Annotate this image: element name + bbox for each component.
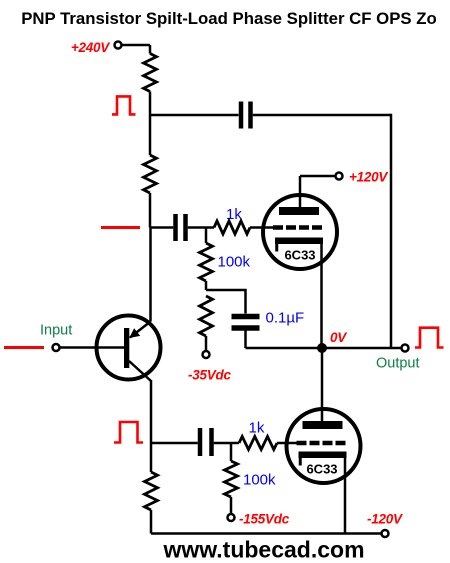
- svg-text:www.tubecad.com: www.tubecad.com: [162, 537, 364, 563]
- wire C4 to junction and R7: [214, 442, 239, 445]
- wire C1 to right rail: [253, 114, 391, 117]
- tube U1 grid dashes: [273, 225, 322, 230]
- terminal +120V: [336, 173, 343, 180]
- resistor R7 1k: [239, 437, 277, 450]
- svg-text:100k: 100k: [218, 254, 251, 271]
- wire lower-left rail to R6: [150, 443, 153, 472]
- tube U1 plate bar: [279, 207, 319, 215]
- svg-text:PNP Transistor Spilt-Load Phas: PNP Transistor Spilt-Load Phase Splitter…: [21, 9, 437, 28]
- wire R5 to -35Vdc terminal: [205, 336, 208, 351]
- terminal Input: [53, 344, 60, 351]
- svg-text:+240V: +240V: [71, 40, 110, 55]
- tube U2 cathode bar: [299, 452, 347, 459]
- wire coupling node to C2: [150, 226, 173, 229]
- transistor Q1 emitter arrow: [129, 328, 140, 338]
- wire rail R1 to node: [149, 92, 152, 156]
- transistor Q1 circle: [97, 316, 161, 380]
- wire 100k lower drop: [230, 443, 233, 461]
- node 0V junction dot: [317, 343, 327, 353]
- svg-text:0V: 0V: [330, 330, 347, 345]
- tube U2 plate bar: [303, 421, 343, 429]
- resistor R4 100k: [200, 243, 213, 281]
- pulse symbol lower-left: [114, 422, 143, 443]
- wire R7 to tube U2 grid: [277, 442, 298, 445]
- wire C2 to R3: [188, 226, 214, 229]
- tube U1 cathode bar: [275, 238, 323, 245]
- svg-text:6C33: 6C33: [284, 248, 315, 263]
- tube U2 cathode left leg: [299, 457, 302, 466]
- svg-text:Output: Output: [376, 356, 420, 372]
- tube U2 envelope: [287, 409, 361, 483]
- svg-text:-120V: -120V: [367, 512, 403, 527]
- wire R8 to -155Vdc terminal: [230, 497, 233, 514]
- resistor R1: [144, 54, 157, 92]
- wire rail into transistor emitter: [149, 228, 152, 322]
- terminal -35Vdc: [203, 351, 210, 358]
- svg-text:6C33: 6C33: [306, 462, 337, 477]
- svg-text:Input: Input: [40, 323, 72, 339]
- resistor R6: [145, 472, 158, 510]
- svg-text:-35Vdc: -35Vdc: [188, 368, 232, 383]
- terminal -155Vdc: [228, 514, 235, 521]
- svg-text:100k: 100k: [243, 472, 276, 489]
- wire U2 cathode lead down to bottom rail: [344, 457, 347, 534]
- terminal Output: [402, 345, 409, 352]
- tube U1 envelope: [263, 195, 337, 269]
- capacitor C4: [200, 428, 212, 456]
- wire input to transistor base: [60, 346, 127, 349]
- wire right vertical rail: [390, 114, 393, 348]
- pulse symbol output: [415, 328, 444, 348]
- svg-text:-155Vdc: -155Vdc: [239, 512, 290, 527]
- wire 100k upper drop: [205, 228, 208, 244]
- resistor R3 1k: [214, 221, 250, 234]
- wire collector rail down: [150, 380, 153, 443]
- wire C3 bottom to output wire: [244, 331, 247, 349]
- red input level line: [4, 346, 44, 349]
- resistor R5: [200, 296, 213, 336]
- tube U1 plate lead: [300, 176, 336, 207]
- resistor R8 100k: [225, 461, 238, 497]
- wire R3 to tube U1 grid: [250, 226, 274, 229]
- pulse symbol top-left: [112, 96, 136, 114]
- wire from +240V terminal to top of rail: [122, 44, 151, 47]
- wire lower coupling node to C4: [151, 442, 198, 445]
- red level line mid-left: [101, 226, 140, 229]
- transistor Q1 collector line: [129, 361, 151, 381]
- capacitor C3: [232, 317, 260, 329]
- wire output horizontal: [246, 347, 402, 350]
- wire top horizontal to C1: [150, 114, 239, 117]
- wire 0V node down to U2 plate: [321, 348, 324, 421]
- capacitor C2: [176, 214, 186, 241]
- tube U1 cathode left leg: [275, 243, 278, 252]
- terminal -120V: [382, 530, 389, 537]
- transistor Q1 base bar: [124, 328, 129, 368]
- wire junction to C3 top: [206, 289, 246, 314]
- wire rail R2 to coupling node: [149, 193, 152, 228]
- transistor Q1 emitter line: [130, 322, 151, 338]
- wire bottom rail: [151, 532, 382, 535]
- wire R4 to junction: [205, 281, 208, 290]
- svg-text:1k: 1k: [249, 420, 265, 437]
- svg-text:0.1µF: 0.1µF: [266, 310, 305, 327]
- tube U2 grid dashes: [297, 441, 346, 446]
- wire U1 cathode lead down to 0V node: [320, 243, 323, 348]
- wire rail top segment: [149, 45, 152, 54]
- terminal +240V: [115, 42, 122, 49]
- svg-text:+120V: +120V: [349, 170, 388, 185]
- resistor R2: [144, 155, 157, 193]
- wire R6 to bottom rail: [150, 510, 153, 534]
- capacitor C1: [241, 102, 251, 129]
